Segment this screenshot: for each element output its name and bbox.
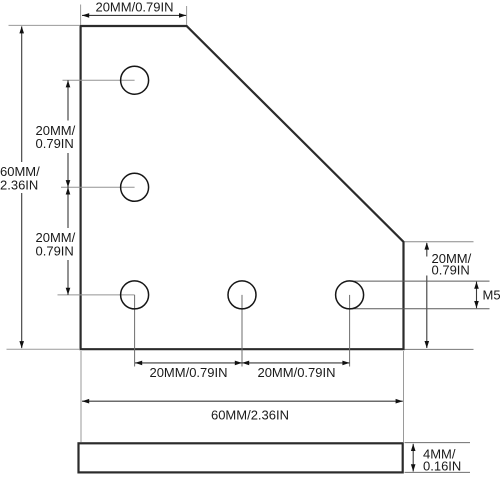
arrowhead up (411, 444, 416, 451)
hole H2 (121, 173, 149, 201)
extension line bottom (405, 348, 474, 350)
centerline hole H4 vertical (241, 295, 243, 367)
dimension thickness 4MM/0.16IN (405, 443, 471, 474)
arrowhead middle right-pointing (235, 361, 242, 366)
dimension line (21, 26, 23, 348)
arrowhead left (135, 361, 142, 366)
dimension line upper stub (426, 243, 428, 257)
hole H4 (228, 281, 256, 309)
dimension line lower part (426, 276, 428, 349)
arrowhead down (66, 180, 71, 187)
svg-text:2.36IN: 2.36IN (0, 178, 38, 193)
extension line top tangent (350, 280, 490, 282)
plate side view (79, 443, 403, 472)
svg-text:0.79IN: 0.79IN (36, 136, 74, 151)
dimension line (135, 362, 350, 364)
arrowhead down (19, 341, 24, 348)
centerline hole H3 horizontal (58, 294, 135, 296)
hole H1 (121, 66, 149, 94)
arrowhead up (66, 187, 71, 194)
dimension top 20MM/0.79IN (81, 0, 187, 25)
dimension right edge 20MM/0.79IN (405, 242, 474, 350)
dimension line (476, 282, 478, 309)
arrowhead up (66, 80, 71, 87)
dimension line (412, 444, 414, 472)
label mask (33, 228, 77, 260)
dimension line (67, 187, 69, 295)
arrowhead up (19, 26, 24, 33)
dimension line (82, 14, 186, 16)
arrowhead down (474, 301, 479, 308)
centerline hole H5 vertical (349, 295, 351, 367)
svg-text:0.79IN: 0.79IN (432, 262, 470, 277)
arrowhead down (425, 341, 430, 348)
dimension hole spacing H2-H3 20MM/0.79IN (33, 187, 77, 295)
dimension M5 hole diameter (350, 281, 500, 309)
extension line right (186, 6, 188, 25)
hole H3 (121, 281, 149, 309)
arrowhead left (82, 399, 89, 404)
arrowhead up (474, 282, 479, 289)
centerline hole H1 (63, 79, 135, 81)
svg-text:0.79IN: 0.79IN (36, 244, 74, 259)
extension line left (80, 5, 82, 26)
dimension bottom overall 60MM/2.36IN (81, 351, 404, 442)
centerline hole H2 (61, 186, 135, 188)
extension line top (9, 24, 80, 26)
dimension hole spacing H1-H2 20MM/0.79IN (33, 80, 77, 187)
svg-text:M5: M5 (483, 288, 500, 303)
dimension bottom hole spacing H3-H4 and H4-H5 (135, 361, 350, 380)
arrowhead right (396, 399, 403, 404)
extension line bottom (405, 471, 471, 473)
label mask (33, 121, 77, 154)
plate front view outline (81, 26, 404, 349)
extension line right vertical (403, 351, 405, 442)
extension line bottom (7, 348, 80, 350)
label mask (0, 162, 43, 193)
centerline hole H3 vertical (134, 295, 136, 367)
dimension line (67, 80, 69, 187)
arrowhead right (179, 13, 186, 18)
svg-text:20MM/0.79IN: 20MM/0.79IN (257, 365, 335, 380)
arrowhead down (66, 288, 71, 295)
arrowhead down (411, 464, 416, 471)
extension line left vertical (80, 351, 82, 442)
dimension line (82, 400, 403, 402)
svg-text:0.16IN: 0.16IN (423, 458, 461, 473)
svg-text:60MM/2.36IN: 60MM/2.36IN (211, 408, 289, 423)
svg-text:20MM/0.79IN: 20MM/0.79IN (95, 0, 173, 15)
svg-text:20MM/0.79IN: 20MM/0.79IN (149, 365, 227, 380)
arrowhead up (425, 242, 430, 249)
arrowhead right (342, 361, 349, 366)
extension line top (405, 241, 474, 243)
extension line bottom tangent (350, 308, 490, 310)
arrowhead middle left-pointing (242, 361, 249, 366)
extension line top (405, 442, 471, 444)
dimension left 60MM/2.36IN (0, 25, 79, 349)
hole H5 (336, 281, 364, 309)
arrowhead left (82, 13, 89, 18)
